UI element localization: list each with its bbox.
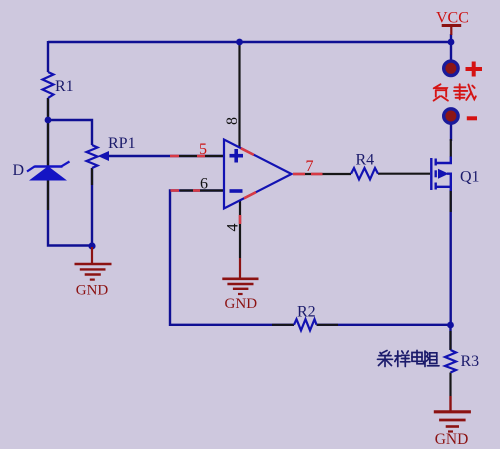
svg-text:6: 6 (200, 176, 208, 193)
svg-text:5: 5 (199, 141, 207, 158)
svg-text:GND: GND (76, 283, 109, 299)
svg-text:R1: R1 (55, 78, 74, 95)
svg-text:8: 8 (224, 117, 241, 125)
svg-text:VCC: VCC (436, 10, 469, 27)
svg-text:RP1: RP1 (108, 135, 136, 152)
svg-text:7: 7 (306, 158, 314, 175)
svg-text:D: D (13, 162, 25, 179)
svg-text:R3: R3 (461, 353, 480, 370)
svg-text:Q1: Q1 (460, 169, 480, 186)
svg-text:R2: R2 (297, 304, 316, 321)
svg-text:GND: GND (225, 296, 258, 312)
svg-text:R4: R4 (356, 152, 375, 169)
svg-text:4: 4 (225, 224, 242, 232)
svg-text:GND: GND (435, 431, 469, 448)
